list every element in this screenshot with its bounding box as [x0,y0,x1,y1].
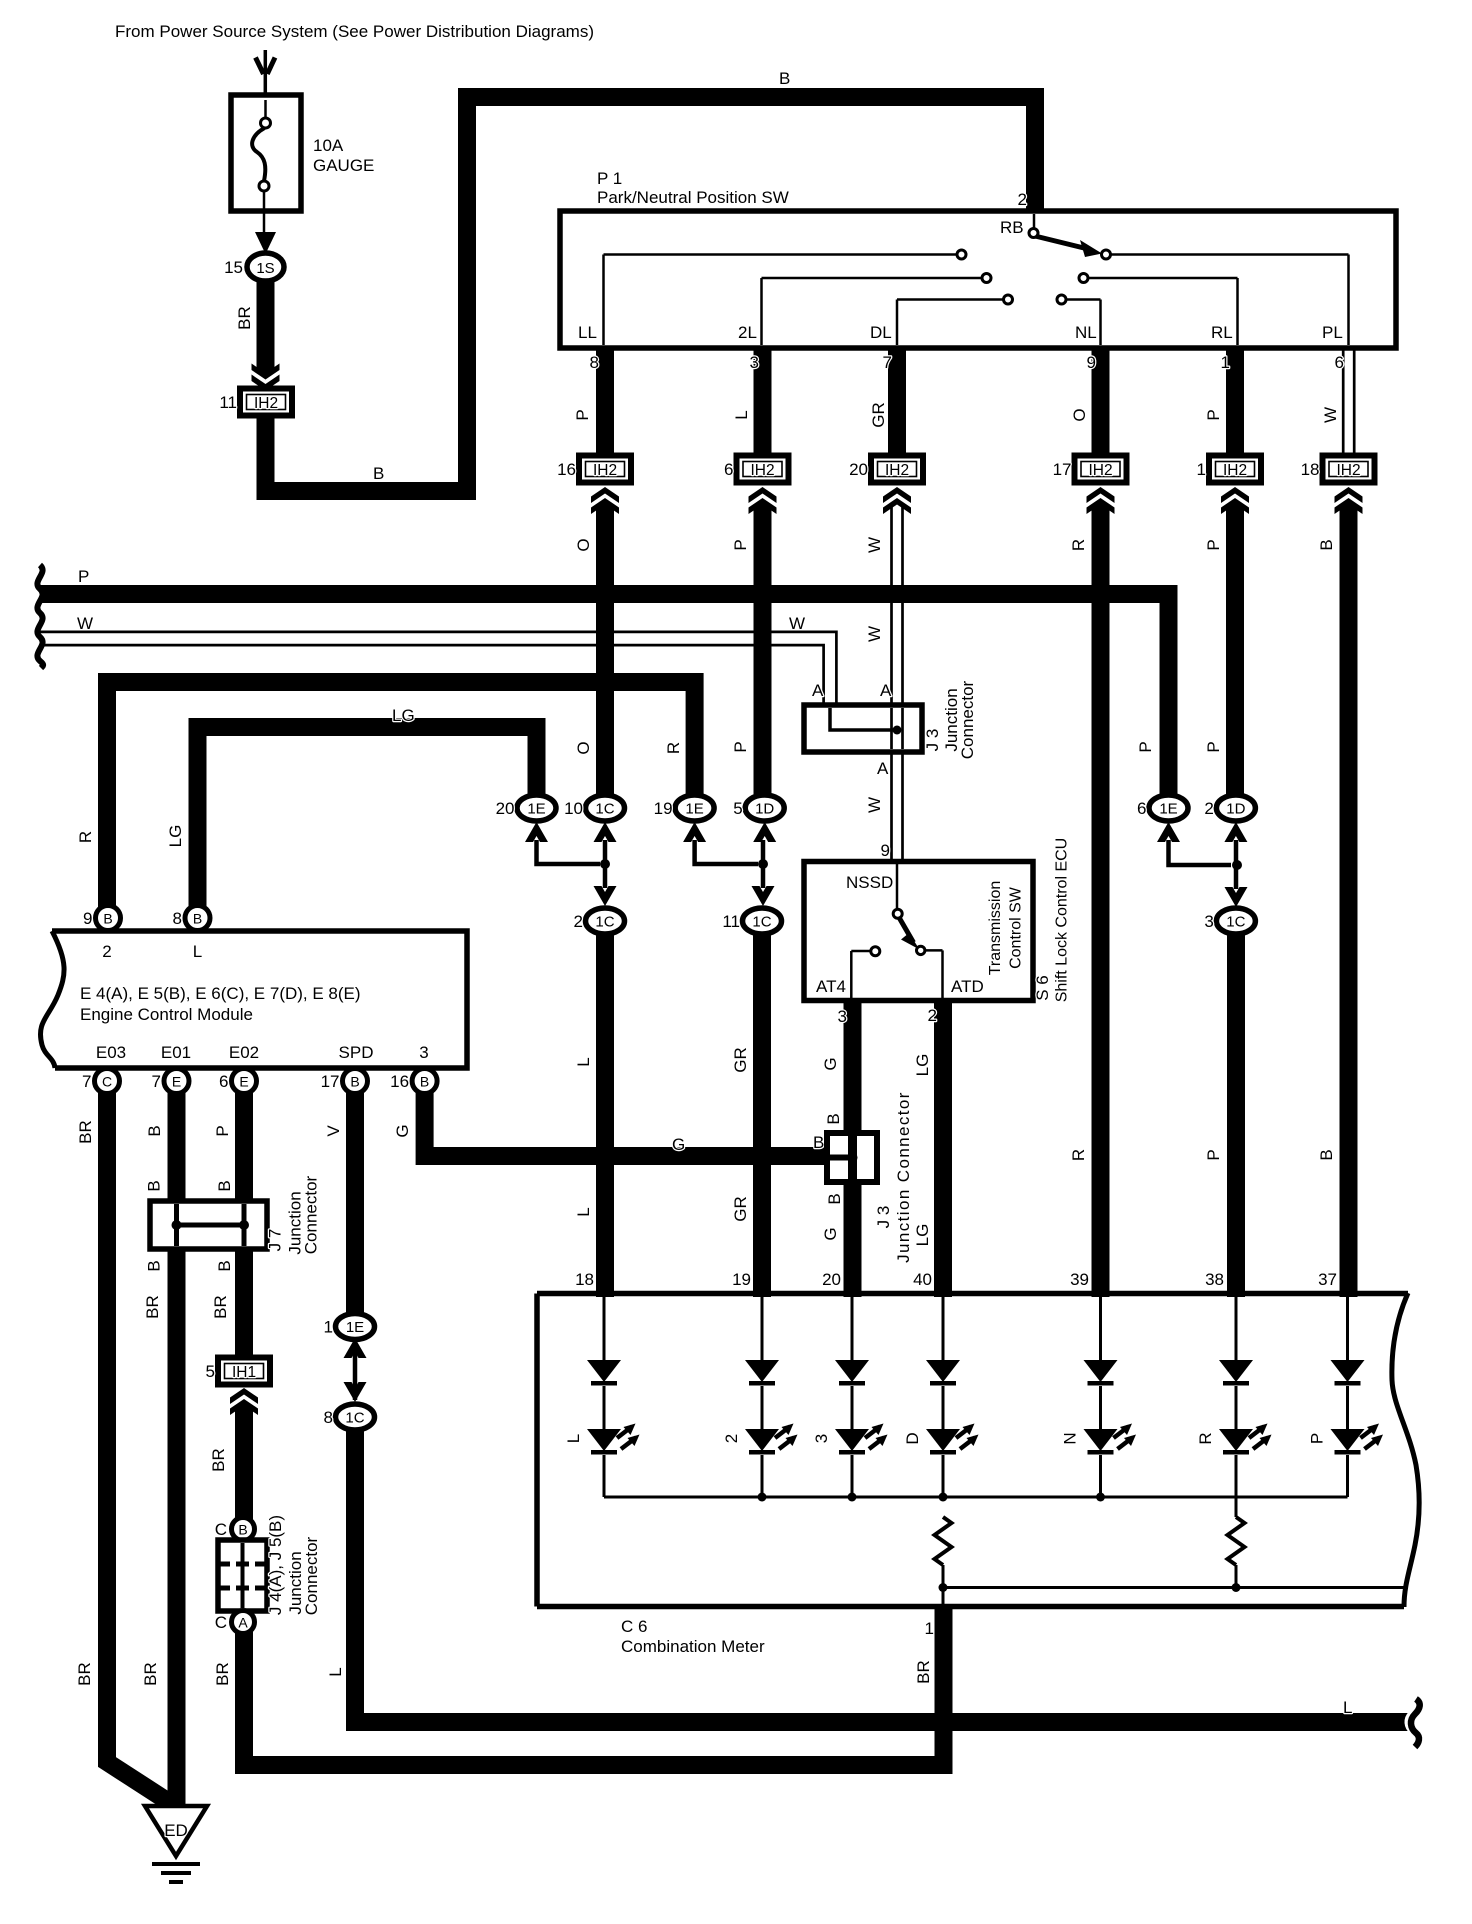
svg-text:B: B [145,1125,164,1136]
svg-text:IH2: IH2 [1088,462,1112,479]
svg-text:IH1: IH1 [232,1364,256,1381]
svg-text:C 6: C 6 [621,1617,647,1636]
svg-text:40: 40 [913,1270,932,1289]
svg-text:B: B [420,1074,429,1090]
svg-text:20: 20 [496,799,515,818]
svg-text:Connector: Connector [302,1536,321,1615]
svg-text:LG: LG [166,825,185,848]
svg-text:W: W [789,614,805,633]
svg-text:3: 3 [419,1043,428,1062]
svg-text:B: B [779,69,790,88]
svg-text:BR: BR [76,1120,95,1144]
svg-text:W: W [77,614,93,633]
svg-text:8: 8 [590,353,599,372]
svg-text:IH2: IH2 [1223,462,1247,479]
svg-text:R: R [76,831,95,843]
svg-text:2: 2 [102,942,111,961]
svg-text:O: O [574,741,593,754]
svg-text:7: 7 [883,353,892,372]
svg-text:L: L [193,942,202,961]
svg-text:B: B [373,464,384,483]
svg-text:9: 9 [1087,353,1096,372]
svg-text:LG: LG [392,706,415,725]
svg-text:IH2: IH2 [885,462,909,479]
svg-text:3: 3 [750,353,759,372]
svg-text:BR: BR [914,1660,933,1684]
svg-text:18: 18 [575,1270,594,1289]
svg-text:Engine Control Module: Engine Control Module [80,1005,253,1024]
svg-text:1D: 1D [755,801,774,818]
svg-text:1C: 1C [345,1410,364,1427]
svg-text:16: 16 [557,460,576,479]
svg-text:P: P [1308,1433,1327,1444]
svg-text:D: D [903,1432,922,1444]
svg-text:IH2: IH2 [593,462,617,479]
svg-text:2: 2 [928,1006,937,1025]
svg-text:B: B [215,1180,234,1191]
svg-text:1C: 1C [1226,914,1245,931]
svg-text:1S: 1S [256,260,274,277]
svg-text:P: P [731,539,750,550]
svg-text:8: 8 [324,1408,333,1427]
svg-text:9: 9 [881,841,890,860]
svg-text:G: G [393,1124,412,1137]
svg-text:1: 1 [925,1619,934,1638]
svg-text:PL: PL [1322,323,1343,342]
svg-text:NSSD: NSSD [846,873,893,892]
svg-text:39: 39 [1070,1270,1089,1289]
svg-text:Junction Connector: Junction Connector [894,1091,913,1263]
svg-text:B: B [1317,1149,1336,1160]
svg-text:37: 37 [1318,1270,1337,1289]
svg-text:BR: BR [235,306,254,330]
svg-text:10: 10 [564,799,583,818]
svg-text:R: R [1069,1149,1088,1161]
svg-text:2L: 2L [738,323,757,342]
svg-text:L: L [326,1667,345,1676]
svg-text:J 3: J 3 [923,729,942,752]
svg-text:2: 2 [1018,190,1027,209]
svg-text:C: C [215,1613,227,1632]
svg-text:1: 1 [1197,460,1206,479]
svg-text:9: 9 [83,909,92,928]
svg-text:E 4(A), E 5(B), E 6(C), E 7(D): E 4(A), E 5(B), E 6(C), E 7(D), E 8(E) [80,984,361,1003]
svg-text:LL: LL [578,323,597,342]
svg-text:1E: 1E [527,801,545,818]
svg-text:J 7: J 7 [266,1229,285,1252]
svg-text:18: 18 [1301,460,1320,479]
svg-text:2: 2 [574,912,583,931]
svg-text:S 6: S 6 [1033,975,1052,1001]
svg-text:P: P [213,1125,232,1136]
svg-text:19: 19 [654,799,673,818]
svg-text:IH2: IH2 [1336,462,1360,479]
svg-text:P: P [731,741,750,752]
svg-text:P: P [573,409,592,420]
svg-text:A: A [880,681,892,700]
svg-text:L: L [574,1207,593,1216]
svg-text:P 1: P 1 [597,169,622,188]
svg-text:L: L [564,1434,583,1443]
svg-text:Control SW: Control SW [1008,886,1025,969]
svg-text:N: N [1061,1432,1080,1444]
svg-text:GAUGE: GAUGE [313,156,374,175]
svg-text:A: A [812,681,824,700]
svg-text:10A: 10A [313,136,344,155]
svg-text:V: V [324,1125,343,1137]
svg-text:P: P [1204,741,1223,752]
svg-text:GR: GR [731,1047,750,1073]
svg-text:1E: 1E [1159,801,1177,818]
svg-text:L: L [1343,1698,1352,1717]
svg-text:IH2: IH2 [254,395,278,412]
svg-text:C: C [102,1074,112,1090]
svg-text:17: 17 [1053,460,1072,479]
svg-text:P: P [1136,741,1155,752]
svg-text:W: W [865,537,884,553]
svg-text:P: P [1204,539,1223,550]
svg-text:1C: 1C [595,801,614,818]
svg-text:BR: BR [141,1662,160,1686]
svg-text:20: 20 [822,1270,841,1289]
svg-text:NL: NL [1075,323,1097,342]
svg-text:LG: LG [913,1054,932,1077]
svg-text:Shift Lock Control ECU: Shift Lock Control ECU [1054,838,1071,1003]
svg-text:B: B [145,1180,164,1191]
svg-text:P: P [78,567,89,586]
svg-text:6: 6 [724,460,733,479]
svg-text:1: 1 [324,1318,333,1337]
svg-text:BR: BR [75,1662,94,1686]
svg-text:G: G [821,1057,840,1070]
svg-text:B: B [103,911,112,927]
svg-text:RL: RL [1211,323,1233,342]
svg-text:17: 17 [321,1072,340,1091]
svg-text:O: O [574,538,593,551]
svg-text:E: E [172,1074,181,1090]
svg-text:LG: LG [913,1224,932,1247]
svg-text:E02: E02 [229,1043,259,1062]
svg-text:3: 3 [812,1434,831,1443]
svg-text:IH2: IH2 [750,462,774,479]
svg-text:B: B [1317,539,1336,550]
svg-text:6: 6 [1335,353,1344,372]
svg-text:C: C [215,1520,227,1539]
svg-text:BR: BR [211,1295,230,1319]
svg-text:O: O [1070,408,1089,421]
svg-text:B: B [813,1133,824,1152]
svg-text:A: A [877,759,889,778]
svg-text:6: 6 [219,1072,228,1091]
svg-text:7: 7 [82,1072,91,1091]
svg-text:5: 5 [733,799,742,818]
svg-text:2: 2 [1204,799,1213,818]
svg-text:J 4(A), J 5(B): J 4(A), J 5(B) [266,1515,285,1615]
svg-text:L: L [732,410,751,419]
svg-text:W: W [1321,407,1340,423]
svg-text:P: P [1204,1149,1223,1160]
svg-text:R: R [1196,1432,1215,1444]
svg-text:W: W [865,797,884,813]
svg-text:From Power Source System (See: From Power Source System (See Power Dist… [115,22,594,41]
svg-text:P: P [1204,409,1223,420]
svg-text:8: 8 [173,909,182,928]
svg-text:E03: E03 [96,1043,126,1062]
svg-text:19: 19 [732,1270,751,1289]
svg-text:L: L [574,1057,593,1066]
svg-text:2: 2 [722,1434,741,1443]
svg-text:SPD: SPD [339,1043,374,1062]
svg-text:R: R [664,742,683,754]
svg-text:A: A [238,1615,248,1631]
svg-text:E: E [239,1074,248,1090]
svg-text:38: 38 [1205,1270,1224,1289]
svg-text:1C: 1C [752,914,771,931]
svg-text:7: 7 [152,1072,161,1091]
svg-text:B: B [193,911,202,927]
svg-text:15: 15 [224,258,243,277]
svg-text:GR: GR [869,402,888,428]
svg-text:5: 5 [206,1362,215,1381]
svg-text:1E: 1E [346,1319,364,1336]
svg-text:J 3: J 3 [874,1206,893,1229]
svg-text:Connector: Connector [958,680,977,759]
svg-text:ATD: ATD [951,977,984,996]
svg-text:W: W [865,626,884,642]
svg-text:20: 20 [849,460,868,479]
svg-text:1: 1 [1221,353,1230,372]
svg-text:6: 6 [1137,799,1146,818]
svg-text:DL: DL [870,323,892,342]
svg-text:G: G [672,1135,685,1154]
svg-text:E01: E01 [161,1043,191,1062]
svg-text:3: 3 [1204,912,1213,931]
svg-text:GR: GR [731,1196,750,1222]
svg-text:G: G [821,1227,840,1240]
svg-text:B: B [215,1260,234,1271]
svg-text:ED: ED [164,1821,188,1840]
svg-text:B: B [824,1113,843,1124]
svg-text:B: B [350,1074,359,1090]
svg-text:1E: 1E [685,801,703,818]
svg-text:R: R [1069,539,1088,551]
svg-text:11: 11 [219,393,237,412]
svg-text:B: B [238,1522,247,1538]
svg-text:AT4: AT4 [816,977,846,996]
svg-text:Connector: Connector [302,1175,321,1254]
svg-text:3: 3 [838,1007,847,1026]
svg-text:BR: BR [143,1295,162,1319]
svg-text:BR: BR [209,1448,228,1472]
svg-text:RB: RB [1000,218,1024,237]
svg-text:16: 16 [390,1072,409,1091]
svg-text:Transmission: Transmission [987,881,1004,976]
svg-text:BR: BR [213,1662,232,1686]
svg-text:Park/Neutral Position SW: Park/Neutral Position SW [597,188,789,207]
svg-text:Combination Meter: Combination Meter [621,1637,765,1656]
svg-text:1D: 1D [1226,801,1245,818]
svg-text:B: B [145,1260,164,1271]
svg-text:B: B [825,1193,844,1204]
svg-text:1C: 1C [595,914,614,931]
svg-text:11: 11 [722,912,740,931]
